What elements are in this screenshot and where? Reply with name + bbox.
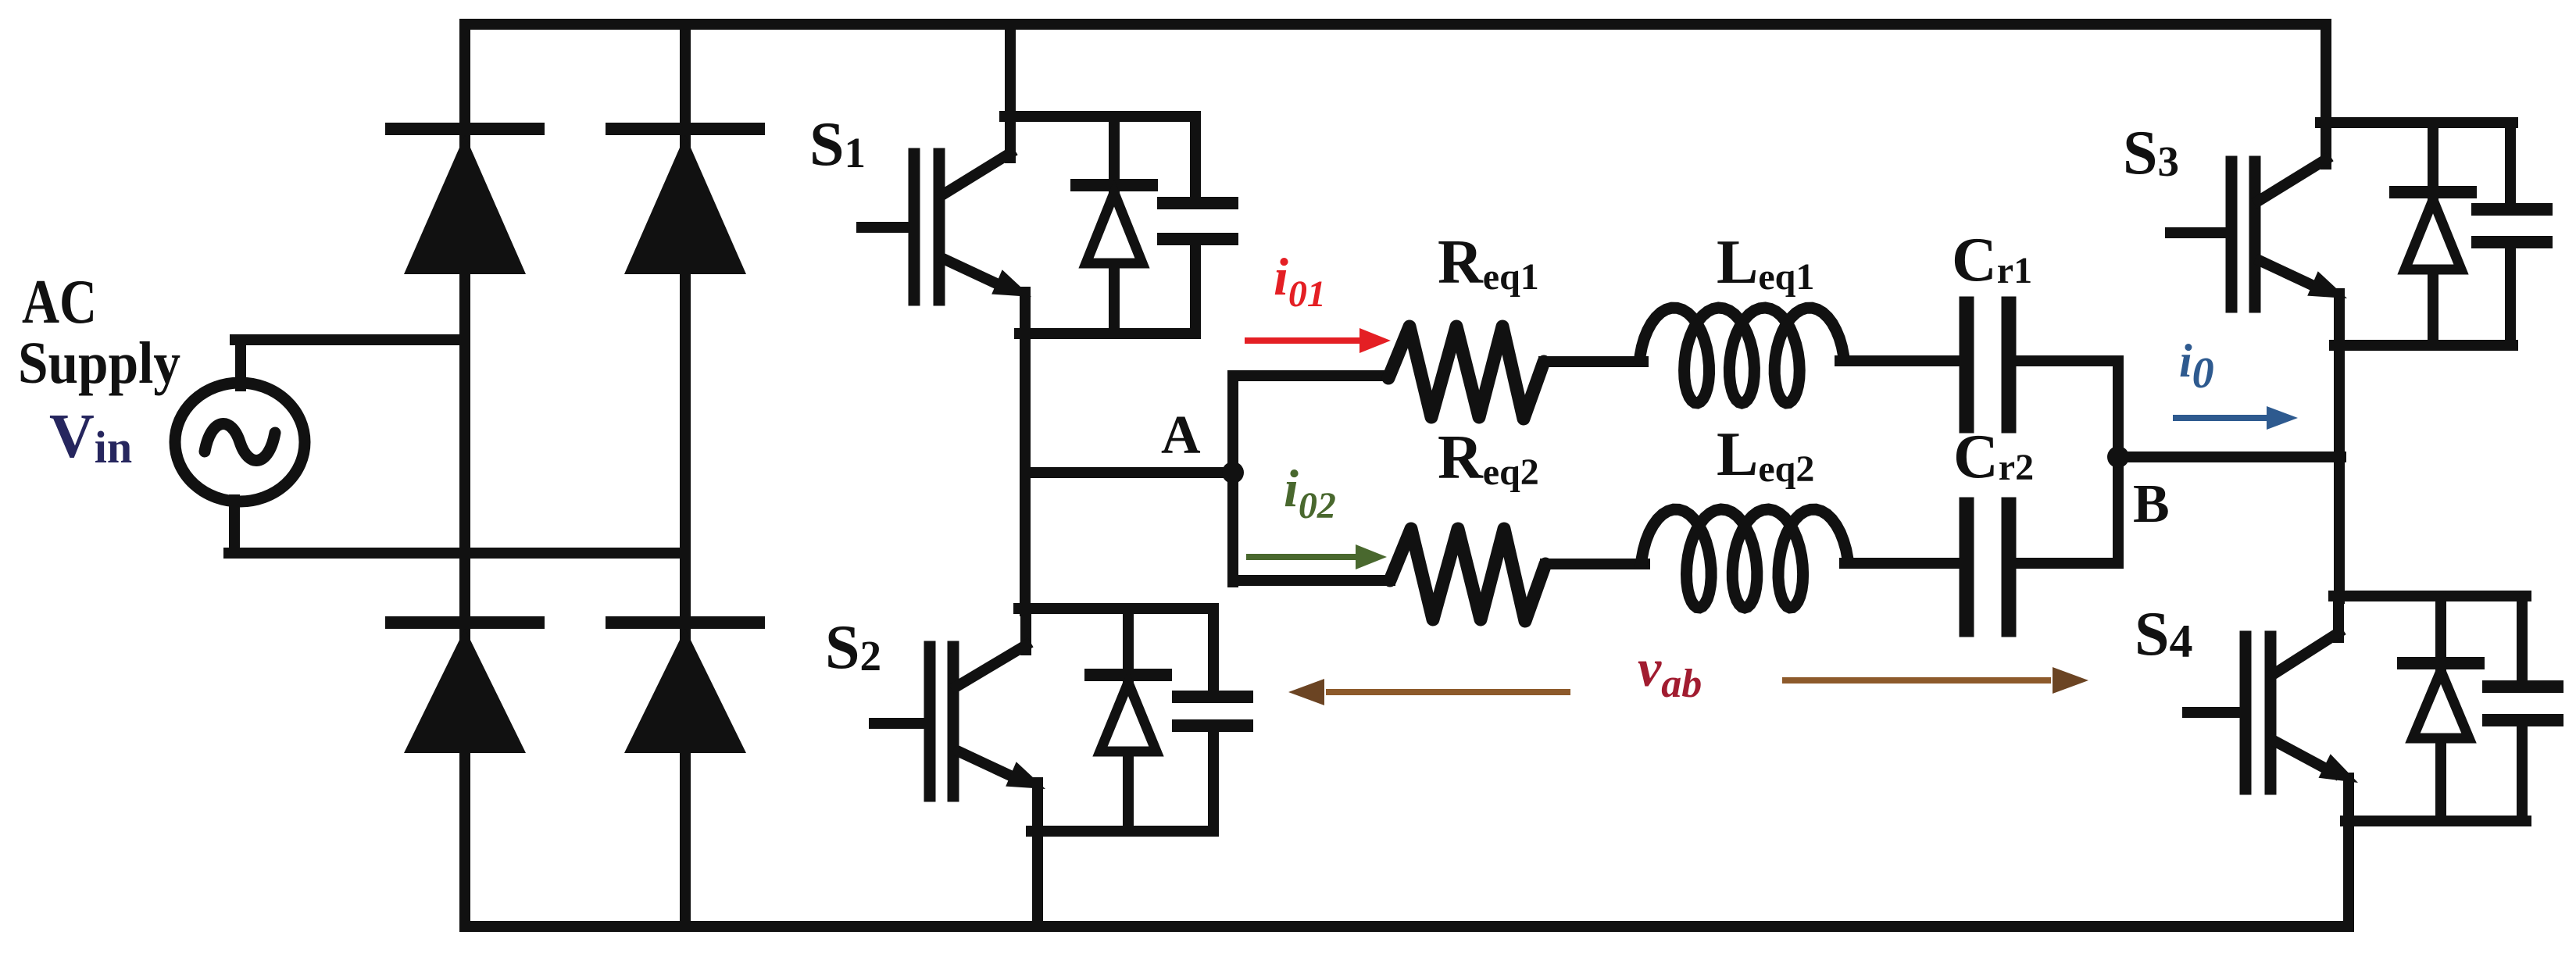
wire: S4 top bar [2334, 591, 2526, 601]
IGBT S3 gate bar 1 [2226, 162, 2238, 307]
wire: S1 snubber branch vertical bottom [1190, 242, 1201, 334]
IGBT S2 gate bar 2 (body) [948, 647, 959, 796]
diode D2 (bridge top-right) cathode bar [612, 123, 759, 135]
capacitor C_S2 plate 2 [1178, 719, 1247, 732]
diode D4 (bridge bottom-right) filled triangle [624, 629, 746, 753]
current arrow i01 (red) [1245, 337, 1363, 344]
resistor Req1 [1388, 327, 1544, 419]
wire: rectifier leg 2 vertical [680, 24, 691, 926]
wire: S2 snubber branch vertical bottom [1208, 729, 1219, 831]
wire: S1 emitter down to S2 collector [1020, 292, 1031, 611]
IGBT S3 collector lead [2259, 159, 2326, 201]
wire: AC top to leg1 midpoint [235, 334, 465, 345]
wire: S2 collector stub below bar [1020, 609, 1031, 650]
wire: AC source bottom terminal [229, 500, 240, 553]
diode D1 (bridge top-left) cathode bar [391, 123, 538, 135]
voltage arrow vab right (brown) [1782, 677, 2051, 684]
wire: Req1 to Leq1 [1544, 356, 1643, 367]
wire: S3 bottom bar [2335, 340, 2513, 351]
wire: S2 emitter to bottom rail [1032, 783, 1043, 926]
resistor Req2 [1390, 529, 1545, 621]
IGBT S2 collector lead [956, 645, 1026, 687]
wire: S3 snubber branch vertical top [2505, 123, 2516, 206]
diode D3 (bridge bottom-left) filled triangle [404, 629, 526, 753]
IGBT S4 gate bar 2 (body) [2265, 637, 2277, 789]
capacitor C_S2 plate 1 [1178, 691, 1247, 703]
wire: Leq1 to Cr1 [1840, 355, 1960, 366]
diode D1 (bridge top-left) filled triangle [404, 135, 526, 274]
IGBT S1 gate lead [862, 222, 914, 233]
wire: S3 collector from top rail [2321, 24, 2331, 125]
wire: Leq2 to Cr2 [1845, 558, 1960, 569]
current arrow i02 (green) [1246, 554, 1359, 560]
capacitor Cr1 plate 2 [2002, 304, 2017, 426]
diode D_S4 cathode bar [2403, 657, 2478, 669]
wire: S4 diode branch vertical [2435, 596, 2446, 821]
wire: S3 diode branch vertical [2428, 123, 2438, 345]
wire: S2 bottom bar [1031, 826, 1213, 837]
IGBT S2 gate bar 1 [924, 647, 936, 796]
wire: S1 collector stub below bar [1005, 116, 1016, 158]
IGBT S1 gate bar 1 [909, 154, 920, 300]
capacitor C_S1 plate 1 [1163, 197, 1232, 209]
wire: S4 snubber branch vertical top [2517, 596, 2528, 683]
capacitor C_S3 plate 1 [2478, 203, 2546, 216]
wire: S3 emitter down to S4 collector [2334, 294, 2345, 598]
AC source sine symbol [205, 424, 275, 461]
diode D_S2 triangle [1100, 683, 1156, 751]
wire: S1 bottom bar [1020, 328, 1195, 339]
capacitor C_S4 plate 1 [2488, 680, 2557, 693]
wire: Req2 to Leq2 [1545, 559, 1645, 569]
wire: S4 bottom bar [2346, 816, 2526, 826]
wire: S4 collector stub below bar [2333, 596, 2344, 637]
diode D_S2 cathode bar [1091, 669, 1166, 681]
capacitor C_S3 plate 2 [2478, 236, 2546, 248]
svg-text:Supply: Supply [18, 330, 180, 396]
wire: S3 top bar [2321, 117, 2513, 128]
inductor Leq1 [1639, 308, 1845, 403]
IGBT S3 gate lead [2170, 227, 2231, 238]
wire: S1 snubber branch vertical top [1190, 116, 1201, 200]
wire: S1 diode branch vertical [1109, 116, 1120, 334]
diode D_S1 triangle [1086, 193, 1142, 263]
IGBT S4 gate lead [2188, 707, 2246, 718]
voltage arrow vab left (brown) [1326, 689, 1570, 695]
capacitor C_S4 plate 2 [2488, 714, 2557, 726]
IGBT S4 collector lead [2274, 633, 2338, 674]
wire: S3 collector stub below bar [2321, 123, 2331, 164]
wire: node A to Req1 [1233, 370, 1388, 381]
capacitor Cr1 plate 1 [1960, 304, 1974, 426]
wire: S4 snubber branch vertical bottom [2517, 723, 2528, 821]
IGBT S1 gate bar 2 (body) [934, 154, 945, 300]
wire: S1 collector from top rail [1005, 24, 1016, 122]
wire: Cr1 to node B corner [2016, 355, 2118, 366]
wire: AC source top terminal [235, 340, 246, 386]
svg-text:B: B [2133, 474, 2170, 534]
capacitor C_S1 plate 2 [1163, 233, 1232, 245]
AC source Vin circle [175, 383, 305, 501]
diode D4 (bridge bottom-right) cathode bar [612, 616, 759, 629]
wire: top DC rail [465, 19, 2326, 30]
node B junction dot [2107, 446, 2129, 468]
node A junction dot [1222, 462, 1244, 484]
capacitor Cr2 plate 2 [2002, 505, 2017, 630]
IGBT S4 emitter lead with arrow [2274, 741, 2335, 773]
wire: S3 snubber branch vertical bottom [2505, 245, 2516, 345]
diode D2 (bridge top-right) filled triangle [624, 135, 746, 274]
wire: midpoint to node A [1025, 467, 1233, 478]
diode D_S1 cathode bar [1077, 179, 1152, 191]
diode D_S3 cathode bar [2396, 186, 2471, 198]
IGBT S2 emitter lead with arrow [959, 751, 1019, 780]
wire: S2 top bar [1019, 603, 1213, 614]
IGBT S2 gate lead [874, 718, 930, 729]
diode D_S3 triangle [2405, 200, 2461, 269]
wire: node B to right phase leg [2118, 452, 2341, 462]
diode D_S4 triangle [2413, 671, 2469, 738]
inductor Leq2 [1641, 509, 1849, 608]
capacitor Cr2 plate 1 [1960, 505, 1974, 630]
wire: node A vertical [1227, 376, 1238, 582]
wire: S2 diode branch vertical [1123, 609, 1134, 831]
diode D3 (bridge bottom-left) cathode bar [391, 616, 538, 629]
wire: Cr2 to node B corner [2016, 558, 2118, 569]
wire: bottom DC rail [465, 921, 2349, 932]
IGBT S3 emitter lead with arrow [2260, 261, 2322, 290]
wire: AC bottom to leg2 midpoint [229, 548, 685, 559]
wire: S2 snubber branch vertical top [1208, 609, 1219, 694]
svg-text:A: A [1161, 405, 1201, 466]
wire: node A to Req2 [1233, 575, 1390, 586]
current arrow i0 (blue) [2173, 415, 2270, 421]
wire: S1 top bar [1005, 111, 1195, 122]
IGBT S3 gate bar 2 (body) [2249, 162, 2261, 307]
IGBT S1 emitter lead with arrow [945, 259, 1005, 287]
wire: rectifier leg 1 vertical [459, 24, 470, 926]
IGBT S1 collector lead [943, 153, 1010, 195]
svg-text:AC: AC [22, 268, 97, 337]
wire: S4 emitter to bottom rail [2343, 778, 2354, 926]
IGBT S4 gate bar 1 [2240, 637, 2252, 789]
